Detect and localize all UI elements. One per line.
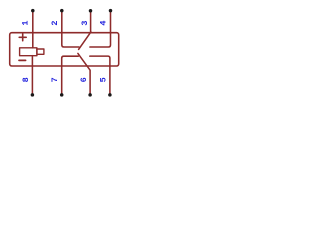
minus polarity mark (19, 59, 26, 61)
pin 8 endpoint dot (31, 93, 35, 97)
coil rectangle (20, 48, 37, 56)
pin 5 wire (90, 56, 110, 95)
pin 5 endpoint dot (108, 93, 112, 97)
svg-text:7: 7 (50, 77, 60, 82)
pin 3 wire (90, 11, 92, 32)
plus polarity mark (19, 34, 26, 41)
pin 4 endpoint dot (109, 9, 113, 13)
pin 1 wire (32, 11, 34, 48)
svg-text:6: 6 (79, 77, 89, 82)
relay body K1 outline (10, 33, 119, 66)
pin 7 wire (62, 56, 78, 94)
coil core small rectangle (37, 49, 44, 54)
svg-text:8: 8 (21, 77, 31, 82)
pin 3 endpoint dot (89, 9, 93, 13)
svg-text:5: 5 (99, 77, 109, 82)
pin 8 wire (31, 56, 33, 95)
switch arm 1 (79, 32, 91, 50)
pin 7 endpoint dot (60, 93, 64, 97)
pin 2 wire (62, 11, 79, 47)
svg-text:4: 4 (99, 20, 109, 25)
svg-text:2: 2 (50, 20, 60, 25)
svg-text:3: 3 (80, 20, 90, 25)
pin 2 endpoint dot (60, 9, 64, 13)
switch arm 2 and pin 6 wire (78, 53, 90, 94)
svg-text:1: 1 (21, 20, 31, 25)
pin 4 wire (90, 11, 111, 47)
pin 1 endpoint dot (31, 9, 35, 13)
pin 6 endpoint dot (88, 93, 92, 97)
